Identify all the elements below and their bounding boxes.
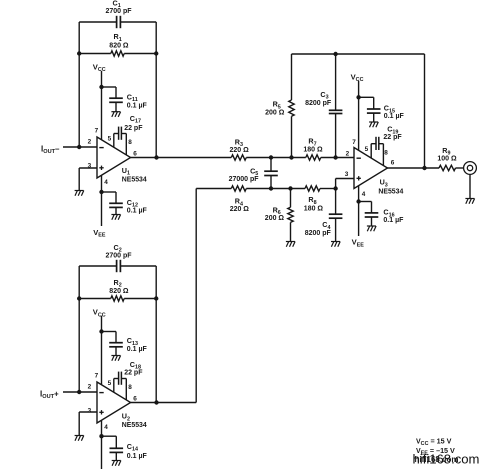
svg-text:2: 2 bbox=[88, 139, 92, 146]
svg-text:200 Ω: 200 Ω bbox=[265, 215, 285, 222]
svg-text:0.1 µF: 0.1 µF bbox=[127, 102, 148, 109]
svg-text:4: 4 bbox=[104, 424, 108, 431]
svg-text:100 Ω: 100 Ω bbox=[437, 156, 457, 163]
svg-text:5: 5 bbox=[108, 380, 112, 387]
svg-text:5: 5 bbox=[365, 146, 369, 153]
svg-text:0.1 µF: 0.1 µF bbox=[383, 217, 404, 224]
svg-text:8200 pF: 8200 pF bbox=[305, 100, 332, 107]
svg-text:2700 pF: 2700 pF bbox=[106, 253, 133, 260]
svg-text:22 pF: 22 pF bbox=[124, 369, 143, 376]
svg-text:hifi168.com: hifi168.com bbox=[413, 451, 480, 466]
svg-text:180 Ω: 180 Ω bbox=[304, 206, 324, 213]
svg-text:2700 pF: 2700 pF bbox=[106, 8, 133, 15]
svg-text:2: 2 bbox=[346, 151, 350, 158]
svg-text:8: 8 bbox=[128, 139, 132, 146]
svg-text:6: 6 bbox=[133, 151, 137, 158]
svg-text:2: 2 bbox=[88, 384, 92, 391]
svg-text:0.1 µF: 0.1 µF bbox=[384, 113, 405, 120]
svg-text:22 pF: 22 pF bbox=[383, 134, 402, 141]
svg-text:820 Ω: 820 Ω bbox=[109, 288, 129, 295]
svg-text:8200 pF: 8200 pF bbox=[305, 230, 332, 237]
svg-text:3: 3 bbox=[345, 171, 349, 178]
svg-text:3: 3 bbox=[88, 162, 92, 169]
svg-text:7: 7 bbox=[95, 373, 99, 380]
svg-text:6: 6 bbox=[391, 160, 395, 167]
svg-text:7: 7 bbox=[352, 139, 356, 146]
svg-text:0.1 µF: 0.1 µF bbox=[127, 208, 148, 215]
svg-text:200 Ω: 200 Ω bbox=[265, 109, 285, 116]
svg-text:4: 4 bbox=[104, 179, 108, 186]
svg-text:NE5534: NE5534 bbox=[122, 176, 147, 183]
svg-text:7: 7 bbox=[95, 128, 99, 135]
svg-text:820 Ω: 820 Ω bbox=[109, 43, 129, 50]
svg-text:3: 3 bbox=[88, 407, 92, 414]
svg-text:6: 6 bbox=[133, 396, 137, 403]
svg-text:NE5534: NE5534 bbox=[378, 189, 403, 196]
svg-text:8: 8 bbox=[384, 150, 388, 157]
svg-text:180 Ω: 180 Ω bbox=[303, 147, 323, 154]
svg-text:5: 5 bbox=[108, 135, 112, 142]
svg-text:0.1 µF: 0.1 µF bbox=[127, 453, 148, 460]
svg-text:220 Ω: 220 Ω bbox=[230, 206, 250, 213]
svg-text:22 pF: 22 pF bbox=[124, 125, 143, 132]
svg-text:220 Ω: 220 Ω bbox=[230, 147, 250, 154]
svg-text:27000 pF: 27000 pF bbox=[229, 176, 260, 183]
svg-text:4: 4 bbox=[362, 191, 366, 198]
svg-text:8: 8 bbox=[128, 384, 132, 391]
svg-text:NE5534: NE5534 bbox=[122, 422, 147, 429]
svg-text:0.1 µF: 0.1 µF bbox=[127, 346, 148, 353]
